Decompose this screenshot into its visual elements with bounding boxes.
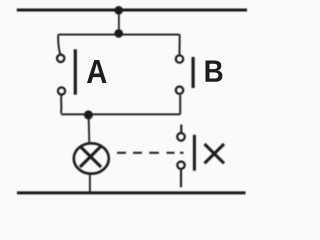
node junction dot above lamp	[84, 110, 93, 119]
wire bottom return rail	[17, 191, 246, 194]
wire junction horizontal from switch A to switch B	[61, 113, 180, 115]
wire from switch B down to junction wire	[179, 95, 181, 114]
lamp L body circle	[74, 143, 109, 173]
wire stub below contact X	[180, 169, 182, 187]
switch B lower contact circle	[176, 87, 183, 94]
contact X lower circle	[177, 162, 184, 169]
contact X actuator bar	[193, 135, 196, 171]
switch B upper contact circle	[176, 55, 183, 62]
wire stub above contact X	[180, 125, 182, 133]
wire branch horizontal to switches A and B	[58, 34, 180, 36]
contact X upper circle	[177, 133, 185, 141]
wire dashed link from lamp to contact X	[117, 152, 184, 154]
switch A lower contact circle	[58, 87, 65, 94]
wire stub to switch B upper contact	[179, 35, 181, 55]
wire stub to switch A upper contact	[58, 35, 60, 55]
label X cross stroke 2	[205, 144, 225, 163]
node junction dot on branch wire	[114, 29, 123, 38]
switch A actuator bar	[74, 49, 77, 94]
label B for switch B	[206, 61, 223, 82]
node junction dot on top rail	[114, 6, 123, 15]
wire from top rail to branch node	[118, 10, 120, 34]
wire top supply rail	[17, 9, 247, 12]
wire from switch A down to junction wire	[60, 95, 62, 114]
switch A upper contact circle	[57, 55, 64, 62]
lamp L cross stroke 2	[80, 146, 101, 167]
lamp L cross stroke 1	[80, 146, 101, 167]
wire junction to lamp	[88, 115, 91, 143]
label X cross stroke 1	[205, 144, 225, 163]
switch B actuator bar	[192, 57, 195, 88]
wire lamp to bottom rail	[89, 174, 91, 192]
label A for switch A	[87, 60, 107, 83]
